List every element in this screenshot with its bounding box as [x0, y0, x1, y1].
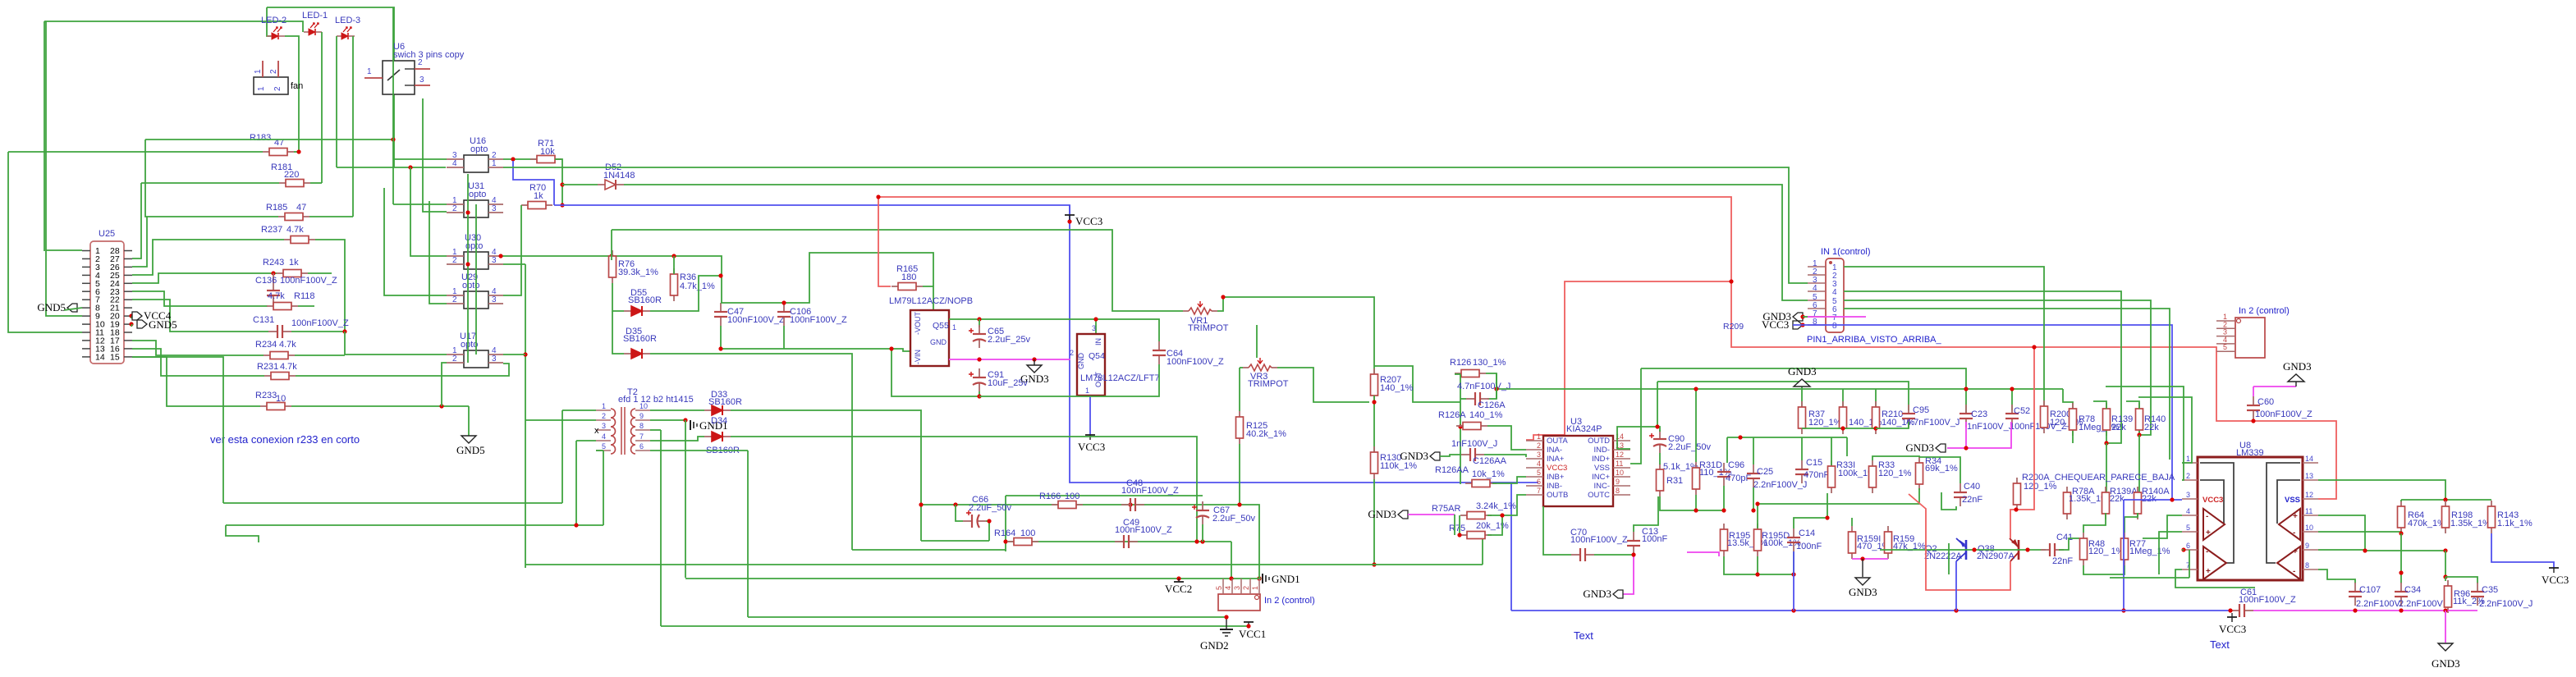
- wire: [1543, 506, 1571, 555]
- wire magenta: [1965, 422, 1967, 448]
- svg-text:+: +: [2206, 528, 2211, 537]
- wire: [2059, 538, 2079, 550]
- power port VCC4: [132, 312, 142, 320]
- junction: [1800, 314, 1804, 318]
- ground GND3: [2288, 374, 2304, 382]
- comparator U8 LM339: [2198, 457, 2303, 580]
- svg-text:LM79L12ACZ/NOPB: LM79L12ACZ/NOPB: [889, 296, 973, 306]
- svg-text:R75: R75: [1449, 524, 1465, 533]
- wire: [1217, 297, 1374, 373]
- svg-text:100nF100V_Z: 100nF100V_Z: [2255, 409, 2312, 419]
- wire: [1034, 359, 1035, 365]
- wire: [923, 286, 933, 310]
- wire: [267, 7, 394, 167]
- pin: [1526, 476, 1543, 478]
- wire: [525, 564, 1483, 565]
- junction: [2399, 531, 2403, 535]
- wire: [986, 521, 989, 541]
- pin: [2182, 531, 2198, 533]
- wire: [513, 161, 554, 205]
- wire red: [2253, 419, 2254, 421]
- svg-text:+: +: [2293, 547, 2298, 556]
- svg-text:120_ 1%: 120_ 1%: [2088, 547, 2125, 556]
- wire: [1641, 368, 1966, 414]
- junction: [1067, 219, 1071, 223]
- junction: [271, 271, 275, 275]
- opto-isolator U30: [447, 252, 503, 269]
- wire: [226, 525, 259, 542]
- svg-text:R185: R185: [266, 203, 287, 213]
- svg-text:GND3: GND3: [1849, 586, 1877, 598]
- capacitor: [969, 368, 986, 391]
- svg-text:R209: R209: [1723, 322, 1744, 332]
- wire: [2317, 550, 2319, 551]
- junction: [889, 346, 893, 350]
- svg-text:6: 6: [1537, 478, 1541, 486]
- wire: [1948, 543, 1950, 574]
- ground GND1b: [1263, 574, 1269, 583]
- junction: [977, 317, 981, 321]
- wire: [979, 364, 1159, 396]
- junction: [2399, 608, 2403, 612]
- wire: [2401, 499, 2491, 501]
- wire: [1630, 368, 1641, 464]
- wire: [1617, 427, 1660, 449]
- svg-text:100: 100: [1065, 492, 1079, 501]
- wire: [2318, 515, 2445, 551]
- connector IN 1: [1808, 258, 1844, 332]
- capacitor: [963, 510, 986, 528]
- pin: [1526, 467, 1543, 469]
- wire: [2106, 431, 2107, 443]
- svg-text:2: 2: [602, 412, 606, 420]
- svg-text:Text: Text: [2210, 638, 2230, 651]
- connector In2 (bottom): [1218, 579, 1260, 611]
- capacitor: [1571, 548, 1594, 561]
- junction: [1954, 608, 1958, 612]
- wire: [2445, 577, 2477, 583]
- junction: [1257, 576, 1261, 580]
- svg-text:4.7k: 4.7k: [286, 225, 304, 235]
- junction: [1246, 624, 1250, 628]
- pin: [82, 340, 90, 341]
- junction: [1791, 608, 1795, 612]
- resistor R183: [263, 149, 294, 156]
- svg-text:120_1%: 120_1%: [2024, 482, 2057, 492]
- wire: [336, 36, 337, 167]
- junction: [609, 254, 613, 258]
- svg-text:3: 3: [1537, 451, 1541, 459]
- junction: [498, 254, 502, 258]
- svg-text:GND5: GND5: [37, 301, 66, 313]
- LED LED-3: [337, 27, 355, 39]
- wire: [650, 276, 721, 311]
- svg-text:GND3: GND3: [1905, 441, 1934, 454]
- svg-text:1: 1: [257, 86, 266, 91]
- wire: [1724, 556, 1794, 574]
- wire: [291, 331, 345, 332]
- wire: [294, 151, 299, 153]
- capacitor: [777, 303, 791, 326]
- wire: [1844, 309, 2170, 460]
- wire: [132, 349, 264, 376]
- junction: [511, 157, 515, 161]
- wire: [612, 230, 1183, 311]
- resistor R181: [279, 180, 310, 187]
- svg-text:22k: 22k: [2111, 423, 2126, 432]
- wire: [1484, 455, 1526, 457]
- junction: [2025, 547, 2029, 551]
- pin: [82, 332, 90, 333]
- svg-text:9: 9: [1616, 478, 1620, 486]
- wire: [2189, 550, 2190, 578]
- svg-text:C60: C60: [2257, 397, 2274, 407]
- svg-text:GND3: GND3: [1583, 588, 1611, 600]
- svg-text:13: 13: [2305, 472, 2313, 480]
- svg-text:6: 6: [2186, 542, 2190, 550]
- wire: [1803, 316, 1808, 318]
- junction: [2228, 608, 2232, 612]
- resistor: [1007, 538, 1038, 546]
- svg-text:R237: R237: [261, 225, 282, 235]
- wire: [132, 341, 264, 355]
- capacitor: [1115, 535, 1138, 548]
- svg-text:120_1%: 120_1%: [1878, 469, 1912, 478]
- power VCC3: [2549, 568, 2559, 573]
- wire: [410, 167, 447, 256]
- wire red net: [1526, 281, 1731, 440]
- wire: [979, 319, 980, 327]
- capacitor: [268, 325, 291, 338]
- capacitor: [2395, 583, 2408, 606]
- pin: [2182, 569, 2198, 570]
- capacitor: [2005, 405, 2019, 428]
- junction: [408, 165, 412, 169]
- svg-text:C41: C41: [2056, 533, 2073, 542]
- svg-text:C52: C52: [2014, 406, 2030, 416]
- wire: [503, 167, 1808, 283]
- svg-text:4.7k: 4.7k: [268, 291, 285, 301]
- svg-text:6: 6: [639, 442, 644, 451]
- junction: [1237, 502, 1241, 506]
- svg-text:69k_1%: 69k_1%: [1925, 464, 1958, 473]
- junction: [439, 404, 443, 408]
- svg-text:100nF100V_Z: 100nF100V_Z: [291, 318, 349, 328]
- wire blue: [1793, 551, 1794, 611]
- wire magenta: [1947, 422, 2011, 448]
- wire: [145, 140, 278, 217]
- wire: [503, 263, 525, 265]
- IC U25: [90, 241, 124, 364]
- svg-text:C126A: C126A: [1478, 400, 1506, 410]
- capacitor: [2247, 396, 2260, 419]
- svg-text:Q54: Q54: [1089, 351, 1105, 361]
- wire: [1373, 396, 1375, 452]
- trimpot VR1: [1183, 301, 1217, 314]
- wire red net: [878, 197, 2336, 499]
- wire: [1727, 437, 1847, 438]
- wire: [721, 326, 910, 351]
- ground GND3: [2438, 643, 2453, 651]
- svg-text:22k: 22k: [2110, 494, 2125, 504]
- wire magenta: [1808, 316, 1866, 318]
- wire: [1794, 493, 1827, 528]
- wire: [345, 332, 447, 355]
- pin: [2303, 549, 2318, 551]
- svg-text:R243: R243: [263, 258, 284, 268]
- transformer T2: [596, 407, 650, 455]
- svg-text:VSS: VSS: [1594, 464, 1610, 473]
- wire magenta: [1852, 558, 1888, 560]
- junction: [2014, 507, 2018, 511]
- wire: [2318, 570, 2355, 583]
- wire: [2295, 382, 2297, 387]
- svg-text:2: 2: [1242, 586, 1250, 590]
- svg-text:4: 4: [1224, 586, 1232, 590]
- svg-text:C15: C15: [1806, 458, 1822, 468]
- wire VCC3 bus: [1511, 482, 1538, 483]
- wire: [8, 151, 263, 153]
- junction: [1500, 513, 1504, 517]
- junction: [1755, 572, 1759, 576]
- junction: [1176, 576, 1180, 580]
- wire: [2159, 532, 2182, 574]
- wire: [1753, 437, 1754, 464]
- resistor: [2488, 501, 2496, 533]
- svg-text:120_1%: 120_1%: [1808, 418, 1842, 428]
- svg-text:GND: GND: [930, 338, 947, 346]
- junction: [1458, 424, 1462, 428]
- wire: [1374, 366, 1460, 402]
- wire: [503, 158, 537, 160]
- wire: [1202, 524, 1203, 542]
- svg-text:C14: C14: [1799, 528, 1815, 538]
- junction: [1860, 556, 1864, 560]
- junction: [2353, 608, 2357, 612]
- resistor R71: [530, 156, 561, 163]
- svg-text:VCC3: VCC3: [1762, 318, 1789, 331]
- svg-text:4: 4: [2186, 507, 2190, 515]
- resistor: [1849, 526, 1856, 559]
- resistor R233: [260, 403, 291, 410]
- wire: [2445, 551, 2446, 577]
- resistor: [2136, 403, 2143, 436]
- resistor: [2442, 501, 2450, 533]
- svg-text:SB160R: SB160R: [628, 295, 662, 305]
- svg-text:opto: opto: [462, 281, 479, 290]
- wire: [1007, 541, 1231, 542]
- wire: [2011, 389, 2013, 410]
- wire: [393, 204, 447, 205]
- junction: [1457, 533, 1461, 537]
- wire: [1660, 496, 1724, 510]
- junction: [2251, 419, 2255, 423]
- svg-text:INB-: INB-: [1547, 482, 1562, 491]
- svg-text:100nF: 100nF: [1642, 534, 1667, 544]
- wire: [603, 451, 604, 525]
- svg-text:10: 10: [276, 394, 286, 404]
- wire: [1919, 457, 1960, 483]
- resistor: [2134, 487, 2142, 519]
- svg-text:100nF100V_Z: 100nF100V_Z: [727, 315, 785, 325]
- svg-text:2.2nF100V: 2.2nF100V: [2356, 599, 2400, 609]
- wire: [2253, 610, 2477, 611]
- pin: [82, 299, 90, 300]
- wire: [46, 249, 82, 251]
- junction: [1751, 508, 1755, 512]
- pin: [82, 323, 90, 325]
- svg-text:2.2uF_50v: 2.2uF_50v: [969, 503, 1011, 513]
- svg-text:LED-1: LED-1: [302, 11, 328, 21]
- wire: [612, 283, 624, 311]
- svg-text:2: 2: [452, 355, 457, 364]
- resistor R243: [277, 270, 308, 277]
- wire: [685, 420, 686, 578]
- resistor R234: [264, 352, 295, 359]
- voltage regulator Q55: [910, 310, 949, 366]
- wire: [783, 326, 785, 349]
- wire: [1373, 479, 1375, 565]
- resistor: [1840, 401, 1847, 434]
- pin: [82, 356, 90, 358]
- opto-isolator U29: [447, 291, 503, 309]
- wire: [525, 264, 526, 568]
- capacitor: [1787, 528, 1800, 551]
- svg-text:IN 1(control): IN 1(control): [1821, 247, 1871, 257]
- wire: [442, 363, 447, 406]
- wire: [285, 36, 299, 152]
- svg-text:1: 1: [1537, 432, 1541, 441]
- power VCC3: [1065, 215, 1075, 220]
- svg-text:1Meg_1%: 1Meg_1%: [2129, 547, 2170, 556]
- svg-text:2: 2: [418, 58, 423, 67]
- wire: [393, 158, 447, 160]
- wire: [298, 305, 314, 307]
- wire: [337, 167, 446, 168]
- junction: [1372, 562, 1376, 566]
- LED LED-1: [304, 23, 322, 35]
- capacitor: [2349, 583, 2362, 606]
- resistor R231: [264, 373, 296, 380]
- wire: [1657, 382, 1909, 410]
- svg-text:10: 10: [1616, 469, 1624, 477]
- wire: [1487, 495, 1526, 515]
- svg-text:+: +: [2293, 512, 2298, 521]
- ground GND3: [1855, 578, 1870, 585]
- ground GND5: [461, 436, 476, 443]
- wire: [223, 502, 562, 504]
- svg-text:5: 5: [2186, 524, 2190, 532]
- wire: [131, 316, 132, 318]
- resistor R70: [521, 202, 552, 209]
- svg-text:1: 1: [254, 69, 263, 74]
- pin: [2182, 462, 2198, 464]
- svg-text:1nF100V_J: 1nF100V_J: [1451, 439, 1497, 449]
- resistor: [1460, 532, 1492, 539]
- junction: [560, 182, 564, 186]
- resistor: [2398, 501, 2405, 533]
- svg-text:4.7nF100V_J: 4.7nF100V_J: [1906, 418, 1960, 428]
- wire: [2318, 480, 2445, 500]
- svg-text:1.35k_1%: 1.35k_1%: [2450, 519, 2491, 528]
- svg-text:2: 2: [452, 295, 457, 304]
- capacitor: [267, 281, 280, 304]
- svg-text:R166: R166: [1039, 492, 1061, 501]
- capacitor: [714, 303, 727, 326]
- junction: [2181, 547, 2185, 551]
- svg-text:U25: U25: [99, 229, 115, 239]
- svg-text:efd 1 12 b2 ht1415: efd 1 12 b2 ht1415: [618, 395, 694, 405]
- wire: [310, 182, 322, 184]
- resistor: [2070, 403, 2077, 436]
- wire: [132, 300, 268, 332]
- wire: [267, 7, 271, 36]
- capacitor: [1627, 532, 1640, 555]
- wire: [315, 240, 345, 332]
- junction: [977, 394, 981, 398]
- svg-text:R231: R231: [257, 362, 278, 372]
- wire blue: [2124, 499, 2182, 501]
- resistor: [1693, 462, 1700, 495]
- junction: [2170, 497, 2174, 501]
- svg-text:VCC3: VCC3: [1547, 464, 1567, 473]
- svg-text:C126AA: C126AA: [1473, 456, 1507, 466]
- wire: [1459, 515, 1460, 535]
- resistor: [1754, 524, 1762, 556]
- svg-text:GND3: GND3: [1368, 508, 1396, 520]
- svg-text:2N2907A: 2N2907A: [1977, 551, 2015, 561]
- junction: [718, 273, 722, 277]
- pin: [1526, 485, 1543, 487]
- connector fan: [254, 61, 288, 94]
- junction: [718, 346, 722, 350]
- wire: [650, 450, 748, 451]
- power VCC3: [2227, 617, 2237, 622]
- wire: [1239, 368, 1240, 411]
- switch U6: [364, 61, 430, 94]
- svg-text:Text: Text: [1574, 629, 1593, 642]
- svg-text:VSS: VSS: [2285, 496, 2300, 505]
- power port GND5: [67, 304, 77, 312]
- wire: [1758, 488, 1919, 504]
- pin: [2182, 515, 2198, 516]
- wire: [721, 302, 784, 304]
- resistor: [2121, 533, 2129, 565]
- junction: [2443, 608, 2447, 612]
- svg-text:39.3k_1%: 39.3k_1%: [618, 268, 658, 277]
- svg-text:GND5: GND5: [149, 318, 177, 331]
- capacitor: [2230, 604, 2253, 617]
- svg-text:C131: C131: [253, 315, 274, 325]
- wire: [612, 311, 624, 354]
- svg-text:-VIN: -VIN: [914, 350, 922, 364]
- junction: [2443, 548, 2447, 552]
- wire: [956, 505, 963, 521]
- svg-text:100nF100V_Z: 100nF100V_Z: [2239, 595, 2296, 605]
- junction: [1003, 539, 1007, 543]
- wire: [501, 256, 722, 303]
- pin: [82, 315, 90, 317]
- wire: [1277, 368, 1369, 402]
- wire: [1757, 556, 1758, 574]
- wire: [731, 410, 921, 541]
- wire red: [2010, 347, 2034, 538]
- junction: [1738, 435, 1742, 439]
- op-amp triangles: [2203, 509, 2300, 579]
- svg-text:10k: 10k: [540, 147, 555, 157]
- resistor: [1721, 524, 1728, 556]
- wire: [503, 205, 521, 295]
